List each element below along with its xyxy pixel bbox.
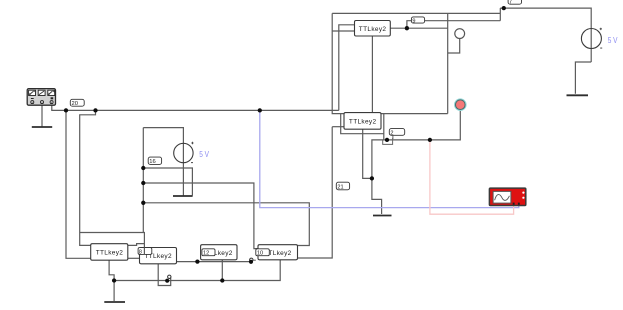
wire: bus end riser x=338.8 to top box upper-left pin (339, 25, 355, 111)
subcircuit box U2 TTLkey2 (91, 244, 128, 261)
wire: branch y=202.8 to box U5 top-right riser (143, 203, 309, 246)
ground G2 (source V1) (173, 195, 193, 197)
key marker under tag 2 (383, 138, 393, 145)
wire: probe P1 lead (448, 39, 460, 54)
junction x=143.3 y=183 (141, 181, 145, 185)
junction bottom bus x=114.1 (112, 278, 116, 282)
svg-text:12: 12 (203, 251, 209, 257)
wire: top net y=8.1 to source V2 (500, 8, 591, 62)
wire: branch y=183 to box U5 upper-left pin (143, 183, 258, 249)
wire: bridge y=232.5 into box U3 top tag (80, 233, 145, 248)
wire: box U2 bottom pin down to bottom bus (109, 260, 114, 280)
svg-text:TTLkey2: TTLkey2 (96, 249, 124, 256)
junction y=261.6 x=251 (249, 260, 253, 264)
subcircuit box U1 TTLkey2 (top) (355, 21, 391, 37)
probe P2 (red) (455, 99, 466, 110)
wire: riser x=447.7 from bus level to top net (447, 13, 449, 113)
wire: main horizontal bus y=110.4 (66, 109, 339, 111)
wire: long vertical x=332.2 down to y=258 (298, 127, 333, 258)
wire: outer rectangle top y=13.4 (332, 12, 500, 14)
ground G1 (function generator) (32, 126, 52, 128)
ground G3 (bottom bus) (104, 281, 125, 303)
wire: blue net from bus to oscilloscope (260, 111, 519, 208)
voltage source V2 5V (581, 28, 618, 49)
wire: horizontal y=126.7 stub (332, 126, 344, 128)
svg-text:5 V: 5 V (199, 150, 209, 159)
net tag 16 (148, 157, 161, 165)
junction x=371.9 y=178.4 (370, 176, 374, 180)
wire: bottom bus y=280.5 with riser to box U5 bottom pin (114, 260, 280, 281)
wire: middle box bottom pin to junction (363, 129, 372, 178)
net tag 8 (box U3 top-left) (138, 248, 152, 256)
subcircuit box U3 TTLkey2 (140, 248, 177, 264)
wire: box U2 to box U3 upper connector (128, 244, 145, 246)
voltage source V1 5V (174, 142, 210, 163)
wire: vertical net x=143.3 from source loop down (142, 128, 144, 233)
probe P1 (white) (455, 29, 465, 39)
ground G4 (middle box) (373, 215, 392, 217)
junction x=143.3 y=202.8 (141, 201, 145, 205)
wire: function generator right terminal to bus (52, 104, 66, 111)
junction bottom bus x=222.3 (220, 278, 224, 282)
junction on bus at x=95.5 (93, 108, 97, 112)
curl terminal near box U3 (168, 275, 171, 278)
net tag 2 (389, 129, 404, 139)
net tag 9 (411, 17, 424, 24)
wire: bus left drop to box U2 lower-left pin (66, 110, 91, 258)
wire: junction straight net y=28.2 (407, 27, 448, 29)
wire: box U4 bottom pin drop (221, 260, 223, 281)
function generator XFG1 (27, 89, 55, 106)
junction top net (502, 6, 506, 10)
wire: pink net from probe junction to oscilloscope (430, 141, 514, 215)
wire: top box bottom pin down to middle box top (371, 36, 373, 113)
junction on bus at blue net (258, 108, 262, 112)
oscilloscope XSC1 (489, 188, 525, 205)
junction y=139.9 x=387 (385, 138, 389, 142)
junction on bus at x=66 (64, 108, 68, 112)
wire: function generator COM terminal to ground G1 (41, 104, 43, 127)
wire: junction to ground G4 (372, 178, 382, 214)
wire: box U2 to box U3 lower connector (128, 257, 140, 259)
svg-text:TTLkey2: TTLkey2 (359, 26, 387, 33)
svg-text:16: 16 (149, 159, 155, 165)
wire: left vertical x=332.2 down to middle box pin (332, 13, 344, 113)
svg-text:TTLkey2: TTLkey2 (349, 118, 377, 125)
wire: top box right pin to junction (390, 27, 407, 29)
junction y=261.6 x=197.4 (195, 259, 199, 263)
junction top box output (405, 26, 409, 30)
net tag 12 (box U4) (202, 249, 215, 257)
net tag 20 (70, 99, 84, 107)
wire: middle box right net y=113.6 (381, 113, 448, 115)
net tag 10 (box U5) (256, 249, 269, 257)
wire: net between boxes at y=261.6 (177, 261, 251, 263)
svg-text:21: 21 (337, 185, 343, 191)
svg-text:8: 8 (139, 250, 142, 256)
svg-text:20: 20 (72, 101, 78, 107)
wire: junction jog up to tag 9 net (407, 21, 500, 29)
wire: source V1 top loop (143, 128, 183, 196)
subcircuit box U5 TTLkey2 (258, 245, 298, 260)
ground G5 (source V2) (567, 94, 589, 96)
net tag 21 (336, 182, 349, 191)
junction y=139.9 x=429.9 (pink net) (428, 138, 432, 142)
net tag (top edge, clipped) (508, 0, 521, 6)
svg-text:9: 9 (412, 18, 415, 24)
wire: middle box lower-left pin loop down to box U5 right pin (341, 114, 384, 134)
curl terminal near box U5 (250, 258, 256, 261)
wire: right collector riser x=500.3 (499, 8, 501, 21)
junction x=143.3 y=168 (141, 166, 145, 170)
wire: branch y=168 to ground G2 bar (143, 168, 192, 196)
svg-text:5 V: 5 V (608, 36, 618, 45)
junction bottom bus x=167.2 (165, 279, 169, 283)
wire: junction riser x=371.9 and net y=139.9 to probe P2 (372, 110, 460, 178)
svg-text:7: 7 (509, 0, 512, 6)
wire: middle box right pin drop x=383.8 (383, 114, 385, 140)
svg-text:10: 10 (257, 251, 263, 257)
wire: source V2 bottom lead to ground G5 (575, 62, 591, 94)
wire: bus jog down-left to box U2 upper-left pin (80, 110, 96, 245)
subcircuit box U4 TTLkey2 (201, 245, 237, 260)
subcircuit box U6 TTLkey2 (middle) (344, 113, 381, 130)
wire: top box lower-left pin stub (332, 30, 354, 32)
wire: box U3 bottom pin drop with detour (158, 264, 171, 286)
